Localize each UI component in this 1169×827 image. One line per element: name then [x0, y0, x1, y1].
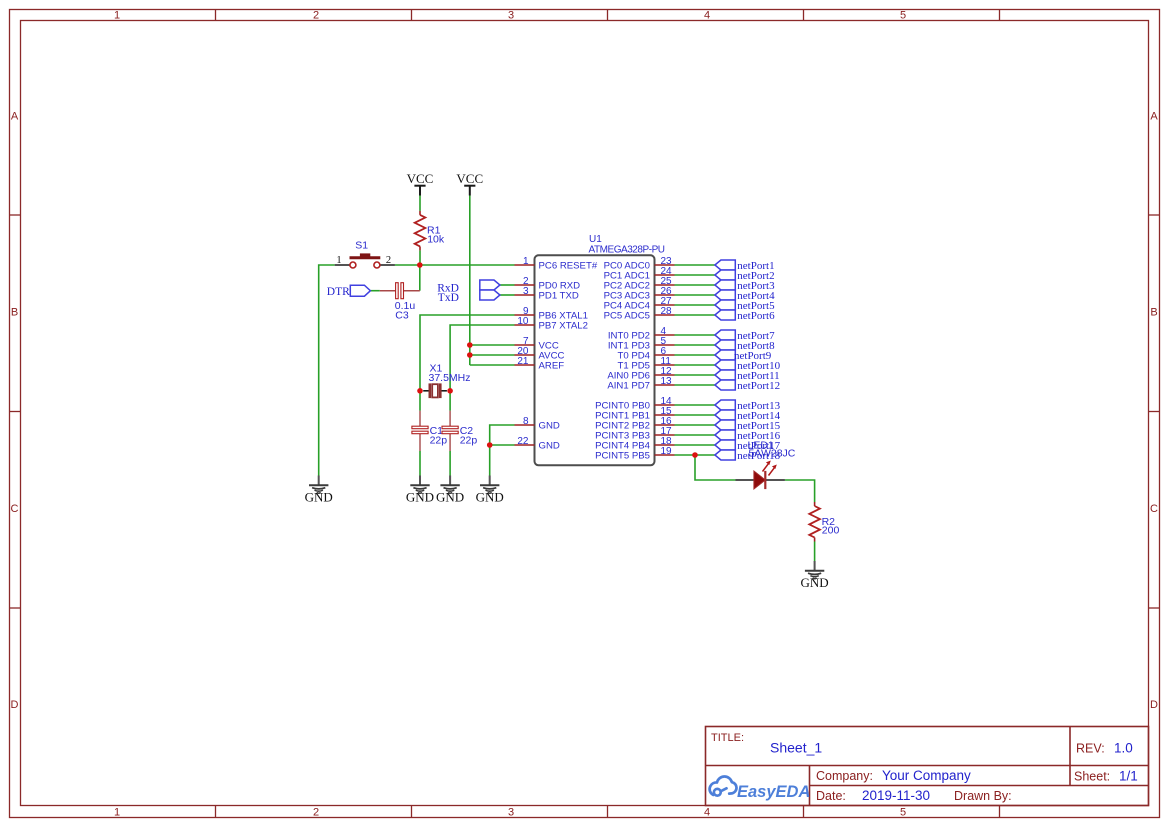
svg-text:37.5MHz: 37.5MHz	[429, 372, 471, 384]
U1 pin 25 PC2 ADC2	[604, 276, 675, 292]
LED LED1	[736, 439, 796, 489]
junction at 469.8,345	[467, 342, 473, 348]
svg-text:GND: GND	[406, 490, 434, 505]
svg-text:Drawn By:: Drawn By:	[954, 789, 1012, 803]
svg-text:DTR: DTR	[327, 286, 350, 298]
GND G4 ground symbol	[480, 476, 499, 494]
net flag netPort12	[715, 380, 780, 392]
svg-text:Your Company: Your Company	[882, 768, 971, 783]
U1 pin 7 VCC	[515, 336, 559, 352]
wire C2 to GND	[449, 451, 451, 476]
U1 pin 4 INT0 PD2	[608, 326, 675, 342]
svg-text:ATMEGA328P-PU: ATMEGA328P-PU	[589, 245, 666, 256]
svg-text:C: C	[11, 503, 19, 515]
svg-text:TITLE:: TITLE:	[711, 732, 744, 744]
U1 pin 3 PD1 TXD	[515, 286, 579, 302]
svg-text:Company:: Company:	[816, 769, 873, 783]
wire pin19 to LED	[695, 455, 736, 480]
svg-text:8: 8	[523, 416, 529, 427]
net flag netPort10	[715, 360, 781, 372]
wire R2 to GND	[814, 542, 816, 562]
wire R1 to junction	[419, 250, 421, 265]
svg-text:22p: 22p	[430, 435, 448, 447]
svg-text:1: 1	[114, 807, 120, 819]
svg-text:AREF: AREF	[539, 361, 565, 372]
svg-text:PCINT5 PB5: PCINT5 PB5	[595, 451, 650, 462]
svg-text:Sheet:: Sheet:	[1074, 770, 1110, 784]
U1 pin 11 T1 PD5	[617, 356, 674, 372]
resistor R1	[415, 211, 445, 251]
U1 pin 23 PC0 ADC0	[604, 256, 675, 272]
svg-text:5: 5	[900, 10, 906, 22]
net flag TxD	[480, 290, 500, 300]
VCC V1 power symbol	[414, 186, 425, 196]
svg-text:B: B	[11, 307, 18, 319]
net flag netPort1	[715, 260, 775, 272]
U1 pin 22 GND	[515, 436, 560, 452]
svg-text:VCC: VCC	[456, 171, 483, 186]
svg-text:2: 2	[313, 10, 319, 22]
svg-text:5: 5	[900, 807, 906, 819]
U1 pin 15 PCINT1 PB1	[595, 406, 674, 422]
svg-text:10k: 10k	[427, 234, 445, 246]
IC U1 ATMEGA328P-PU	[535, 255, 655, 465]
svg-text:GND: GND	[436, 490, 464, 505]
wires right pins to netPort flags	[675, 264, 715, 266]
svg-text:1: 1	[114, 10, 120, 22]
wire DTR flag to C3	[370, 290, 379, 292]
U1 pin 20 AVCC	[515, 346, 565, 362]
svg-text:1: 1	[336, 255, 341, 266]
GND G2 ground symbol	[410, 476, 429, 494]
junction at 420,390.8	[417, 388, 423, 394]
U1 pin 8 GND	[515, 416, 560, 432]
net flag netPort2	[715, 270, 775, 282]
svg-text:200: 200	[822, 525, 840, 537]
svg-text:PC5 ADC5: PC5 ADC5	[604, 311, 650, 322]
svg-text:AIN1 PD7: AIN1 PD7	[607, 381, 650, 392]
U1 pin 24 PC1 ADC1	[604, 266, 675, 282]
net flag netPort14	[715, 410, 781, 422]
svg-text:PB7 XTAL2: PB7 XTAL2	[539, 321, 588, 332]
net flag netPort4	[715, 290, 775, 302]
U1 pin 28 PC5 ADC5	[604, 306, 675, 322]
U1 pin 13 AIN1 PD7	[607, 376, 674, 392]
svg-text:2: 2	[313, 807, 319, 819]
svg-text:Date:: Date:	[816, 789, 846, 803]
net flag netPort16	[715, 430, 781, 442]
wire S1 pin1 to GND	[319, 265, 335, 476]
svg-text:10: 10	[517, 316, 529, 327]
svg-text:19: 19	[661, 446, 673, 457]
svg-text:28: 28	[661, 306, 673, 317]
U1 pin 18 PCINT4 PB4	[595, 436, 674, 452]
junction at 450.1,390.8	[447, 388, 453, 394]
net flag netPort9	[715, 350, 772, 362]
svg-text:2: 2	[386, 255, 391, 266]
U1 pin 14 PCINT0 PB0	[595, 396, 674, 412]
svg-text:EasyEDA: EasyEDA	[737, 783, 810, 801]
svg-text:PC6 RESET#: PC6 RESET#	[539, 261, 598, 272]
svg-text:2019-11-30: 2019-11-30	[862, 788, 930, 803]
U1 pin 5 INT1 PD3	[608, 336, 675, 352]
svg-text:GND: GND	[539, 441, 560, 452]
junction at 419.8,265	[417, 262, 423, 268]
U1 pin 19 PCINT5 PB5	[595, 446, 674, 462]
wire junction down to C3	[419, 265, 421, 291]
svg-text:3: 3	[523, 286, 529, 297]
net flag netPort11	[715, 370, 780, 382]
net flag netPort8	[715, 340, 775, 352]
svg-text:5AW28JC: 5AW28JC	[749, 448, 796, 460]
U1 pin 12 AIN0 PD6	[607, 366, 674, 382]
net flag DTR	[327, 285, 371, 298]
svg-text:21: 21	[517, 356, 529, 367]
resistor R2	[809, 502, 839, 542]
crystal X1	[423, 362, 470, 398]
svg-text:VCC: VCC	[407, 171, 434, 186]
wire pin10 to crystal right	[450, 325, 514, 411]
title block	[706, 727, 1149, 806]
svg-text:netPort6: netPort6	[737, 310, 775, 322]
net flag RxD	[480, 280, 500, 290]
svg-text:PD1 TXD: PD1 TXD	[539, 291, 579, 302]
capacitor C2	[442, 411, 477, 451]
svg-text:D: D	[11, 699, 19, 711]
svg-text:netPort12: netPort12	[737, 380, 780, 392]
svg-text:GND: GND	[305, 490, 333, 505]
wire pin22 GND	[490, 444, 515, 446]
svg-text:TxD: TxD	[438, 292, 459, 304]
svg-text:1: 1	[523, 256, 529, 267]
wire S1 pin2 to chip pin1 (RESET)	[395, 264, 515, 266]
EasyEDA logo	[710, 776, 737, 795]
wire RxD flag to pin2	[500, 284, 515, 286]
net flag netPort3	[715, 280, 775, 292]
svg-text:A: A	[11, 111, 19, 123]
U1 pin 17 PCINT3 PB3	[595, 426, 674, 442]
U1 pin 1 PC6 RESET#	[515, 256, 598, 272]
svg-text:C: C	[1150, 503, 1158, 515]
svg-text:D: D	[1150, 699, 1158, 711]
GND G5 ground symbol	[805, 561, 824, 579]
U1 pin 6 T0 PD4	[617, 346, 674, 362]
svg-text:1.0: 1.0	[1114, 741, 1133, 756]
wire TxD flag to pin3	[500, 294, 515, 296]
wire LED to R2	[785, 480, 815, 502]
svg-text:S1: S1	[355, 240, 368, 252]
U1 pin 2 PD0 RXD	[515, 276, 581, 292]
svg-text:1/1: 1/1	[1119, 769, 1138, 784]
svg-text:GND: GND	[476, 490, 504, 505]
capacitor C3	[380, 283, 420, 322]
svg-text:3: 3	[508, 10, 514, 22]
VCC V2 power symbol	[464, 186, 475, 196]
svg-text:3: 3	[508, 807, 514, 819]
wire VCC2 down to pins 7/20/21	[469, 196, 471, 366]
junction at 489.7,445	[487, 442, 493, 448]
wire pin9 to crystal left	[420, 315, 515, 411]
svg-text:13: 13	[661, 376, 673, 387]
U1 pin 27 PC4 ADC4	[604, 296, 675, 312]
U1 pin 21 AREF	[515, 356, 565, 372]
U1 pin 9 PB6 XTAL1	[515, 306, 588, 322]
svg-text:Sheet_1: Sheet_1	[770, 740, 822, 756]
net flag netPort6	[715, 310, 775, 322]
svg-text:U1: U1	[589, 234, 602, 245]
net flag netPort18	[715, 450, 781, 462]
junction at 695,455	[692, 452, 698, 458]
net flag netPort7	[715, 330, 775, 342]
net flag netPort15	[715, 420, 781, 432]
junction at 469.8,355	[467, 352, 473, 358]
svg-text:4: 4	[704, 807, 710, 819]
svg-text:A: A	[1150, 111, 1158, 123]
capacitor C1	[412, 411, 447, 451]
U1 pin 10 PB7 XTAL2	[515, 316, 588, 332]
svg-text:REV:: REV:	[1076, 742, 1105, 756]
net flag netPort5	[715, 300, 775, 312]
svg-text:22: 22	[517, 436, 529, 447]
U1 pin 16 PCINT2 PB2	[595, 416, 674, 432]
svg-text:GND: GND	[539, 421, 560, 432]
wire VCC1 to R1	[419, 196, 421, 211]
svg-text:C3: C3	[395, 309, 409, 321]
wire C1 to GND	[419, 451, 421, 476]
net flag netPort17	[715, 440, 781, 452]
wire pin8 GND	[490, 425, 515, 476]
svg-text:B: B	[1150, 307, 1157, 319]
U1 pin 26 PC3 ADC3	[604, 286, 675, 302]
svg-text:4: 4	[704, 10, 710, 22]
net flag netPort13	[715, 400, 781, 412]
GND G1 ground symbol	[309, 476, 328, 494]
switch S1	[335, 240, 395, 269]
GND G3 ground symbol	[440, 476, 459, 494]
svg-text:GND: GND	[801, 575, 829, 590]
svg-text:22p: 22p	[460, 435, 478, 447]
